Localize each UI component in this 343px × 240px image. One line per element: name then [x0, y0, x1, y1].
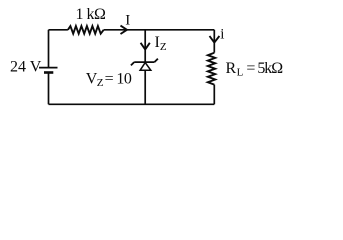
svg-text:i: i	[220, 26, 224, 42]
svg-text:24 V: 24 V	[10, 58, 42, 75]
zener diode DZ	[131, 59, 158, 71]
wire right branch	[213, 30, 215, 105]
wire top (node from source to RL)	[49, 29, 215, 31]
svg-text:IZ: IZ	[155, 34, 167, 53]
resistor R1 1 kOhm (horizontal)	[68, 26, 104, 34]
current arrow Iz (on zener branch)	[141, 43, 150, 50]
svg-text:I: I	[125, 12, 130, 28]
current arrow i (on right branch)	[210, 36, 220, 43]
wire middle branch (zener branch)	[144, 30, 146, 105]
battery V1 (24 V source)	[39, 68, 58, 73]
current arrow I (on top wire)	[121, 26, 127, 34]
wire left	[48, 30, 50, 105]
svg-text:RL= 5kΩ: RL= 5kΩ	[226, 60, 284, 79]
resistor RL 5 kOhm (vertical)	[208, 53, 215, 85]
wire bottom	[49, 103, 215, 105]
svg-text:VZ= 10: VZ= 10	[86, 71, 132, 90]
svg-text:1 kΩ: 1 kΩ	[76, 6, 107, 23]
